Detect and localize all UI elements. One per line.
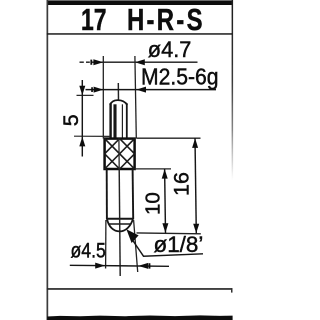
leader arrow to tip (Ø1/8) <box>126 229 138 243</box>
stem thread root right <box>121 104 123 138</box>
knurl top extension line (right) <box>137 137 201 139</box>
svg-text:ø1/8’: ø1/8’ <box>154 232 204 257</box>
extension line right (knurl) <box>135 56 136 139</box>
extension line left (knurl) <box>102 56 104 139</box>
dim 10 bottom arrow (down) <box>162 223 168 233</box>
centerline through knurl <box>118 139 120 169</box>
dim 10 top arrow (up) <box>162 169 168 179</box>
dome chord line <box>109 223 131 225</box>
svg-text:ø4.5: ø4.5 <box>71 239 106 263</box>
dim 10 vertical line <box>164 169 167 233</box>
frame left border <box>47 0 49 320</box>
knurl body <box>105 139 135 169</box>
M2.5 shelf right arrow <box>136 87 146 93</box>
knurl crosshatch <box>105 139 135 169</box>
dim Ø4.5 line <box>70 265 169 266</box>
M2.5 shelf left arrow <box>91 87 103 93</box>
stem thread root left <box>113 104 116 138</box>
dim Ø4.5 left arrow <box>95 263 105 269</box>
svg-text:16: 16 <box>170 172 194 196</box>
dim 5 top arrow (down) <box>79 86 85 96</box>
body bottom shoulder <box>107 218 134 220</box>
knurl top extension line (left) <box>74 135 110 137</box>
dim 5 vertical line <box>81 80 83 157</box>
tip dome <box>107 219 133 231</box>
centerline through body and tip <box>119 169 120 276</box>
dim 16 top arrow (up) <box>192 138 198 148</box>
dim Ø4.7 line <box>80 61 198 63</box>
stem (M2.5 thread) left edge <box>109 103 111 138</box>
bottom black bar <box>47 315 232 320</box>
svg-text:17: 17 <box>81 2 106 37</box>
knurl bottom extension line (right) <box>135 168 171 170</box>
body left extension line down <box>105 220 107 269</box>
bottom tip extension line <box>137 232 201 235</box>
dim Ø4.5 right arrow <box>138 263 150 269</box>
centerline <box>117 83 119 101</box>
title separator line <box>47 33 233 35</box>
dim 16 vertical line <box>195 138 196 233</box>
dim 16 bottom arrow (down) <box>193 224 199 234</box>
stem top chamfer arc <box>110 100 127 105</box>
body cylinder left edge <box>106 169 108 219</box>
bottom-right corner tick <box>231 288 233 293</box>
dim 5 bottom arrow (up) <box>79 137 85 147</box>
frame top black bar <box>47 0 232 5</box>
svg-text:H-R-S: H-R-S <box>127 2 205 37</box>
stem right edge <box>126 103 128 138</box>
bottom separator line <box>47 288 233 290</box>
leader line <box>133 241 203 257</box>
thread top extension line <box>77 94 94 96</box>
dim Ø4.7 left arrow <box>90 59 103 65</box>
dim Ø4.7 right arrow <box>135 59 145 65</box>
frame right border (fading) <box>232 0 234 180</box>
svg-text:5: 5 <box>59 114 83 126</box>
body right extension line down <box>134 220 138 272</box>
dim M2.5-6g shelf line <box>86 89 217 91</box>
svg-text:ø4.7: ø4.7 <box>148 37 192 62</box>
svg-text:10: 10 <box>142 192 165 215</box>
body cylinder right edge <box>132 169 135 219</box>
svg-text:M2.5-6g: M2.5-6g <box>141 64 219 90</box>
